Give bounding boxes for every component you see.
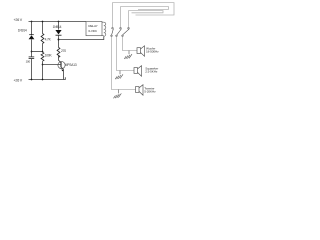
speaker SPK3 tweeter xyxy=(136,85,144,96)
wire coil bottom run xyxy=(59,36,104,39)
resistor 4.7K xyxy=(41,34,44,44)
wire top rail xyxy=(29,21,87,23)
diode D1 1N914 (cathode bar up) xyxy=(29,34,34,36)
wire bottom rail xyxy=(29,77,66,79)
wire column B bottom xyxy=(42,61,44,79)
relay contact K1a xyxy=(111,27,114,36)
wire collector xyxy=(59,55,62,62)
ground G3 (tweeter) xyxy=(114,90,122,99)
wire column A top xyxy=(31,22,33,35)
svg-text:+26 V: +26 V xyxy=(14,18,23,22)
wire base xyxy=(43,64,62,66)
wire column B top xyxy=(42,21,44,33)
svg-text:18-500Hz: 18-500Hz xyxy=(146,50,159,54)
wire column A bottom xyxy=(31,59,33,80)
svg-text:MPSA13: MPSA13 xyxy=(65,63,77,67)
resistor 100K xyxy=(41,52,44,61)
junction dot coil xyxy=(58,39,60,41)
wire bridge A-B xyxy=(32,51,43,53)
junction dot A-top xyxy=(31,21,33,23)
junction dot C-top xyxy=(58,21,60,23)
transistor Q1 MPSA13 xyxy=(58,62,65,69)
wire column B middle xyxy=(42,44,44,53)
wire hook C (contact 3 NO) xyxy=(129,11,164,28)
junction dot A-bottom xyxy=(31,79,33,81)
svg-text:RELAY: RELAY xyxy=(88,24,97,28)
relay contact K1c xyxy=(122,27,130,36)
wire contact3 to woofer xyxy=(123,37,138,51)
svg-text:1N914: 1N914 xyxy=(18,28,27,32)
wire column C top xyxy=(58,22,60,30)
wire column A mid xyxy=(31,39,33,56)
svg-text:4.7K: 4.7K xyxy=(45,37,52,41)
svg-text:270: 270 xyxy=(61,49,66,53)
junction dot B-top xyxy=(42,21,44,23)
wire contact1 to tweeter xyxy=(112,37,136,90)
svg-text:2.5-5KHz: 2.5-5KHz xyxy=(145,70,158,74)
resistor 270 xyxy=(57,47,60,57)
wire hook A (contact 1 NO) xyxy=(113,3,175,28)
svg-text:100: 100 xyxy=(26,60,31,64)
speaker SPK1 woofer xyxy=(137,46,145,57)
relay contact K1b xyxy=(116,27,122,36)
svg-text:+26 V: +26 V xyxy=(14,78,23,82)
emitter with arrow xyxy=(61,67,64,80)
svg-text:6-VDC: 6-VDC xyxy=(88,29,97,33)
svg-text:5-20KHz: 5-20KHz xyxy=(144,89,156,93)
wire column C to junction xyxy=(58,35,60,47)
junction dot A-bridge xyxy=(31,51,33,53)
diode D2 1N914 (pointing down) xyxy=(55,30,61,34)
junction dot B-bottom xyxy=(42,79,44,81)
svg-text:100K: 100K xyxy=(45,53,53,57)
ground G1 (woofer) xyxy=(124,51,132,60)
wire contact2 to squawker xyxy=(117,37,135,71)
wire hook B (contact 2 NO) xyxy=(121,7,169,28)
capacitor C1 xyxy=(29,56,35,58)
ground G2 (squawker) xyxy=(115,71,123,80)
relay coil L1 xyxy=(104,22,106,36)
junction dot B-bridge xyxy=(42,51,44,53)
junction dot B-base xyxy=(42,64,44,66)
relay box xyxy=(86,22,102,36)
svg-text:1N914: 1N914 xyxy=(53,25,62,29)
speaker SPK2 squawker xyxy=(134,66,142,77)
